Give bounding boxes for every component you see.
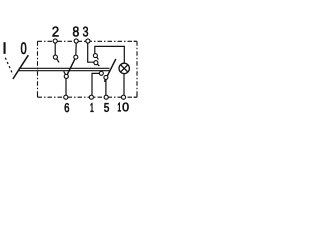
pivot6 drive tick (64, 71, 66, 75)
contact B (94, 61, 98, 65)
lever pole2 (66, 59, 75, 77)
pivot 6 (64, 74, 68, 78)
wire pivot6 to terminal6 (65, 76, 67, 95)
wire terminal2 to contact2 (54, 43, 56, 57)
wire pivotD to terminal5 (105, 77, 107, 95)
terminal 10 (121, 95, 125, 99)
wire contact C to terminal 1 (92, 73, 99, 95)
contact 2 tail (57, 59, 59, 62)
label 0 switch position (21, 42, 26, 54)
lamp (119, 63, 129, 73)
terminal 8 (74, 39, 78, 43)
label I (4, 42, 6, 54)
contact C (99, 71, 103, 75)
terminal 2 (53, 39, 57, 43)
enclosure frame top (38, 40, 138, 42)
label 8 (73, 27, 79, 37)
terminal 6 (64, 95, 68, 99)
label 10 digit 1 (118, 103, 121, 112)
frame corner dash bottom-left (37, 94, 39, 97)
wire terminal3 down and right to contact B (88, 43, 94, 62)
enclosure frame right (136, 41, 138, 97)
frame corner dash bottom-right (134, 94, 137, 98)
label 5 (104, 103, 109, 112)
contact 8 (74, 55, 78, 59)
wire terminal8 to contact8 (75, 43, 77, 57)
contact A tail (97, 57, 99, 59)
label 1 (91, 103, 94, 112)
label 2 (53, 27, 59, 37)
wire lamp to terminal10 (123, 74, 125, 95)
pivot D (104, 75, 108, 79)
actuator position dashed line (5, 58, 13, 75)
terminal 5 (104, 95, 108, 99)
contact 2 (53, 55, 57, 59)
enclosure frame left (37, 41, 39, 97)
label 6 (65, 103, 69, 112)
frame corner dash top-right (134, 40, 137, 42)
coupling bar (double line) (19, 68, 110, 70)
lever lamp pole (104, 59, 115, 82)
lamp feed wire from contact A up and right to lamp (95, 46, 125, 63)
terminal 3 (86, 39, 90, 43)
enclosure frame bottom (38, 96, 138, 98)
actuator lever (13, 55, 28, 79)
contact B tail (98, 64, 100, 66)
terminal 1 (89, 95, 93, 99)
label 3 (83, 27, 88, 37)
label 10 digit 0 (123, 103, 129, 112)
contact A (93, 54, 97, 58)
